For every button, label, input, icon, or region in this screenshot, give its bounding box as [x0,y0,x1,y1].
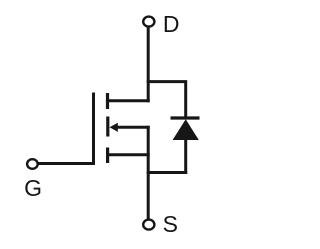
terminal D circle [143,17,154,27]
wire gate horizontal from G terminal [38,162,95,165]
transistor Q1 drain contact bar [106,93,109,109]
transistor Q1 body contact bar [106,117,109,137]
transistor Q1 body arrow [110,123,118,132]
wire source horizontal from source contact [108,153,150,156]
terminal G circle [27,159,38,169]
svg-text:D: D [163,11,180,37]
svg-text:S: S [163,211,178,237]
diode D1 anode triangle [173,119,199,140]
wire diode anode vertical [184,138,187,174]
svg-text:G: G [24,175,42,201]
wire drain horizontal to MOSFET drain contact [108,99,150,102]
wire drain vertical from D terminal [147,27,150,102]
diode D1 cathode bar [171,116,200,119]
wire source node vertical to S terminal [147,126,150,219]
transistor Q1 source contact bar [106,148,109,164]
wire branch to body diode cathode [147,82,186,120]
terminal S circle [143,220,154,230]
wire body to source node [117,126,150,129]
transistor Q1 gate line [92,93,95,166]
wire diode anode to source node [147,171,188,174]
